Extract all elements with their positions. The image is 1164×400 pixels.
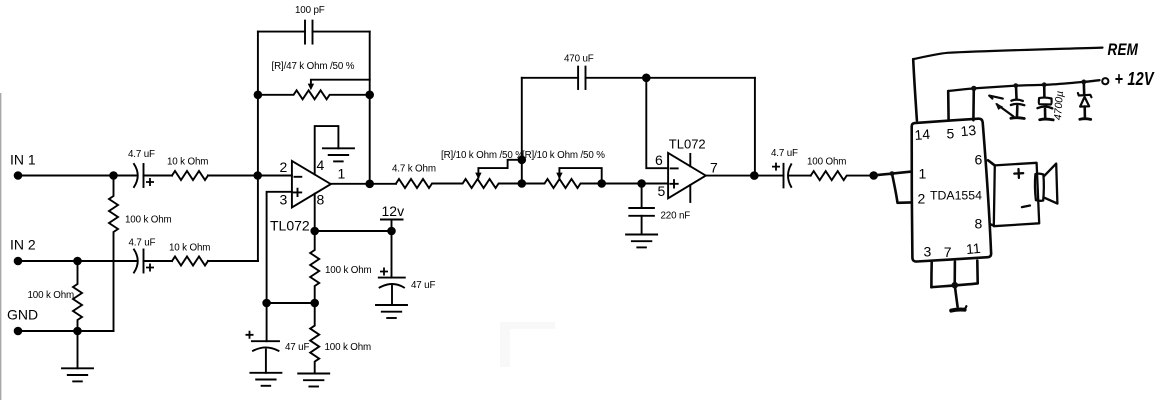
svg-text:100 k Ohm: 100 k Ohm <box>125 215 172 226</box>
svg-text:100 pF: 100 pF <box>295 5 325 16</box>
svg-text:[R]/10 k Ohm /50 %: [R]/10 k Ohm /50 % <box>441 150 524 161</box>
svg-text:4.7 k Ohm: 4.7 k Ohm <box>392 164 436 175</box>
svg-text:3: 3 <box>924 244 932 260</box>
svg-text:8: 8 <box>975 216 983 232</box>
svg-text:100 k Ohm: 100 k Ohm <box>28 290 75 301</box>
svg-text:7: 7 <box>710 160 718 176</box>
svg-text:+ 12V: + 12V <box>1115 68 1156 89</box>
svg-text:TL072: TL072 <box>669 137 706 152</box>
svg-text:5: 5 <box>658 183 666 199</box>
svg-text:IN 1: IN 1 <box>10 152 36 168</box>
svg-text:14: 14 <box>914 126 931 143</box>
svg-text:2: 2 <box>918 191 926 207</box>
svg-text:13: 13 <box>960 122 977 139</box>
svg-text:10 k Ohm: 10 k Ohm <box>169 243 210 254</box>
svg-text:TDA1554: TDA1554 <box>930 189 982 203</box>
svg-text:100 k Ohm: 100 k Ohm <box>325 265 372 276</box>
svg-text:5: 5 <box>947 126 955 142</box>
svg-text:47 uF: 47 uF <box>411 280 435 291</box>
svg-text:4.7 uF: 4.7 uF <box>771 148 798 159</box>
svg-text:2: 2 <box>280 159 288 175</box>
svg-text:10 k Ohm: 10 k Ohm <box>167 157 208 168</box>
svg-text:7: 7 <box>944 244 952 260</box>
svg-text:GND: GND <box>7 307 38 323</box>
svg-text:6: 6 <box>975 152 983 168</box>
svg-text:4.7 uF: 4.7 uF <box>128 149 155 160</box>
svg-text:4: 4 <box>317 157 325 173</box>
svg-text:4.7 uF: 4.7 uF <box>129 238 156 249</box>
svg-text:1: 1 <box>919 166 927 182</box>
svg-text:6: 6 <box>655 152 663 168</box>
svg-text:1: 1 <box>338 166 346 182</box>
svg-text:[R]/10 k Ohm /50 %: [R]/10 k Ohm /50 % <box>522 150 605 161</box>
svg-text:100 Ohm: 100 Ohm <box>807 157 846 168</box>
svg-text:100 k Ohm: 100 k Ohm <box>325 342 372 353</box>
svg-text:TL072: TL072 <box>270 218 310 234</box>
svg-text:[R]/47 k Ohm /50 %: [R]/47 k Ohm /50 % <box>272 61 355 72</box>
svg-text:470 uF: 470 uF <box>564 54 594 65</box>
svg-text:12v: 12v <box>382 203 405 219</box>
svg-text:REM: REM <box>1108 41 1139 60</box>
svg-text:220 nF: 220 nF <box>661 211 691 222</box>
svg-text:IN 2: IN 2 <box>10 237 36 253</box>
svg-text:47 uF: 47 uF <box>285 342 309 353</box>
svg-text:8: 8 <box>317 192 325 208</box>
svg-text:3: 3 <box>280 192 288 208</box>
svg-text:11: 11 <box>965 240 981 257</box>
svg-text:4700µ: 4700µ <box>1052 90 1066 120</box>
